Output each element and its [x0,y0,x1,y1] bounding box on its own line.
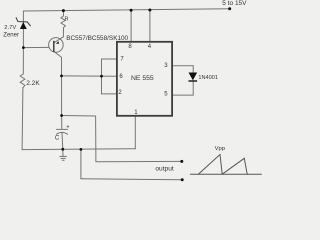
svg-text:NE 555: NE 555 [131,75,154,82]
svg-text:1N4001: 1N4001 [198,75,218,81]
svg-text:2.7V: 2.7V [4,25,16,31]
svg-text:R: R [65,16,69,22]
svg-text:BC557/BC558/SK100: BC557/BC558/SK100 [66,35,128,42]
svg-text:output: output [155,165,174,172]
svg-text:C: C [55,136,60,142]
svg-text:5 to 15V: 5 to 15V [222,0,247,7]
svg-text:Zener: Zener [3,32,19,38]
svg-text:2.2K: 2.2K [26,80,40,87]
svg-text:Vpp: Vpp [215,146,226,152]
